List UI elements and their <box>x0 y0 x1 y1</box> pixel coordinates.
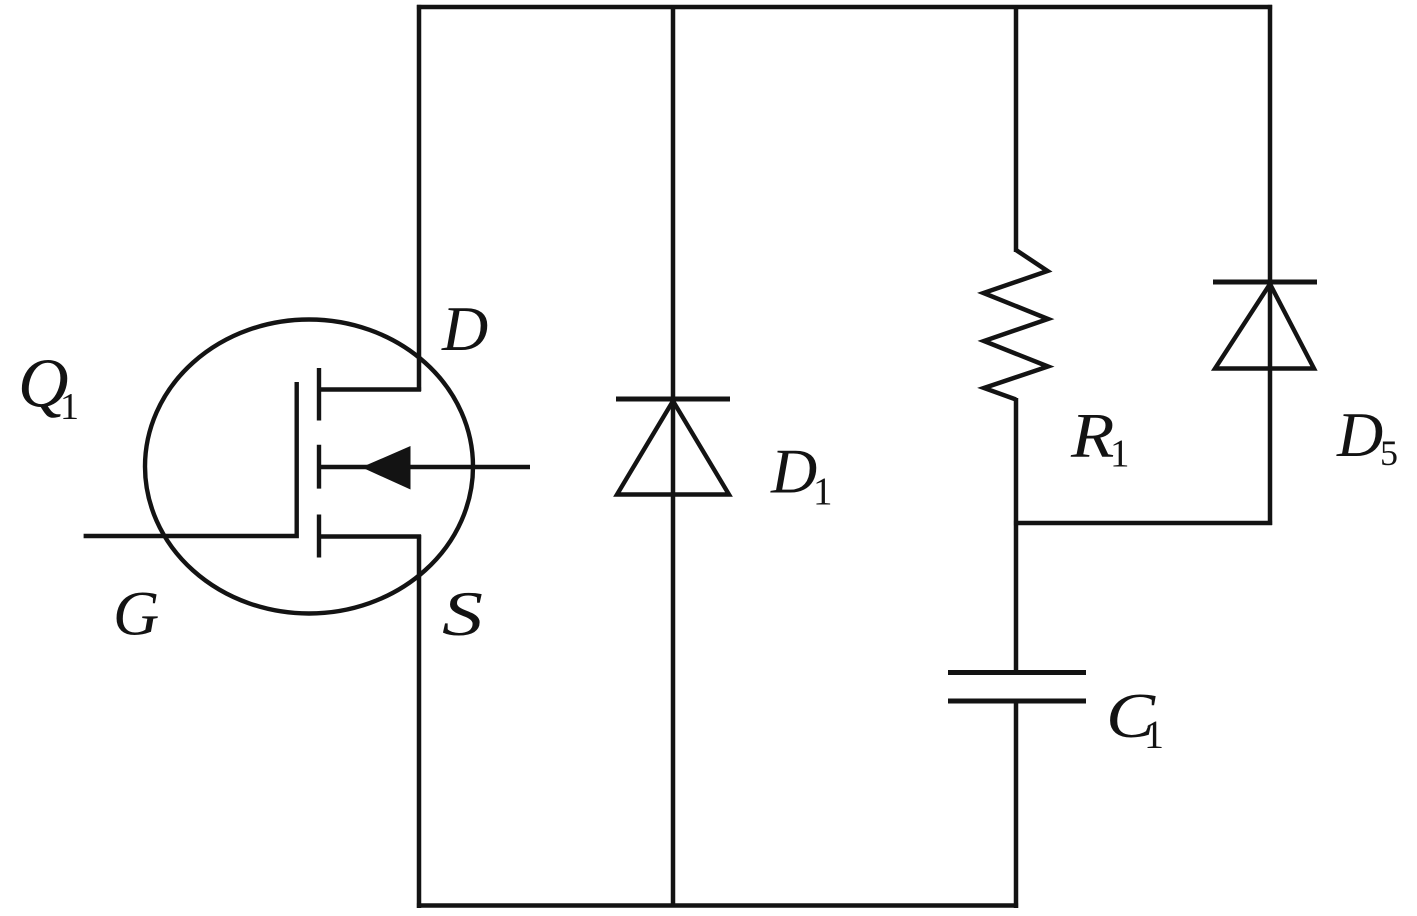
transistor Q1 (MOSFET) <box>84 320 530 614</box>
D5 cathode bar <box>1213 280 1317 285</box>
wire between R1 and C1 <box>1014 398 1019 673</box>
diode D1 <box>616 399 730 495</box>
Q1 source lead <box>319 534 421 538</box>
wire bottom horizontal <box>417 903 1018 908</box>
wire left vertical lower (MOSFET source to bottom rail) <box>417 535 422 908</box>
Q1 body arrow <box>362 446 411 490</box>
svg-text:1: 1 <box>60 386 79 428</box>
svg-text:1: 1 <box>1144 712 1164 757</box>
svg-text:1: 1 <box>813 470 833 513</box>
diode D5 <box>1213 282 1317 369</box>
D5 triangle <box>1215 284 1314 369</box>
svg-text:D: D <box>441 293 488 364</box>
resistor R1 zigzag <box>984 250 1049 400</box>
svg-text:S: S <box>442 578 483 649</box>
Q1 channel dash top <box>317 368 321 421</box>
C1 top plate <box>948 670 1086 675</box>
wire D1 branch vertical <box>671 7 676 906</box>
Q1 body lead <box>319 465 530 469</box>
wire C1 branch lower vertical <box>1014 700 1019 908</box>
wire left vertical upper (top rail to MOSFET drain) <box>417 5 422 391</box>
svg-text:D: D <box>1336 399 1383 470</box>
wire D5 branch vertical <box>1268 5 1273 525</box>
Q1 body circle <box>145 320 473 614</box>
wire middle horizontal (R1/C1 node to D5) <box>1014 521 1272 526</box>
capacitor C1 <box>948 673 1086 702</box>
Q1 drain lead <box>319 387 421 391</box>
wire top horizontal <box>417 5 1272 10</box>
svg-text:G: G <box>113 578 159 649</box>
Q1 channel dash middle <box>317 445 321 489</box>
D1 cathode bar <box>616 397 730 402</box>
C1 bottom plate <box>948 699 1086 704</box>
svg-text:R: R <box>1070 400 1115 471</box>
svg-text:1: 1 <box>1110 432 1130 475</box>
Q1 channel dash bottom <box>317 515 321 558</box>
wire R1 branch upper vertical <box>1014 7 1019 252</box>
Q1 gate bar <box>84 382 297 536</box>
D1 triangle <box>617 401 729 495</box>
svg-text:5: 5 <box>1380 433 1398 473</box>
svg-text:D: D <box>770 436 817 507</box>
